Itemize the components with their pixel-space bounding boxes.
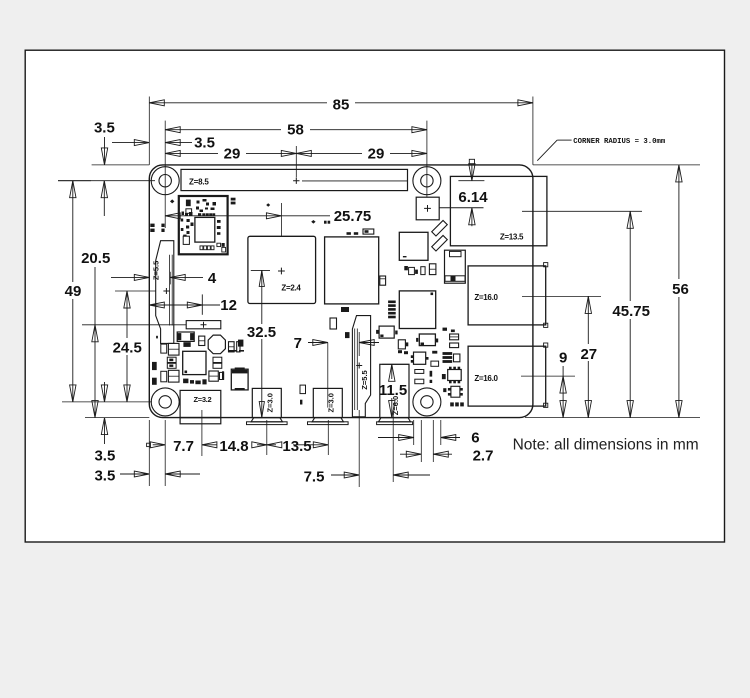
svg-text:20.5: 20.5 bbox=[81, 250, 110, 267]
ext lines hole keepout 6 bbox=[413, 420, 415, 445]
mounting hole bottom-left bbox=[151, 388, 179, 416]
dim 3.5 hole-to-bottom-edge bbox=[104, 382, 106, 402]
small part left of capacitor bbox=[222, 371, 224, 379]
dim 58 line bbox=[165, 129, 281, 131]
dim 56 bbox=[678, 165, 680, 279]
ext line HDMI1 center bottom bbox=[327, 420, 329, 455]
misc small parts top area bbox=[170, 199, 174, 203]
svg-text:9: 9 bbox=[559, 350, 567, 367]
dim 3.5 edge-to-hole bottom bbox=[120, 473, 149, 475]
svg-text:7.7: 7.7 bbox=[173, 438, 194, 455]
ext line hole row top-left bbox=[58, 180, 155, 182]
svg-text:Z=3.2: Z=3.2 bbox=[193, 395, 211, 404]
ext lines hole dia 2.7 bbox=[420, 420, 422, 462]
ext line board top left bbox=[92, 164, 150, 166]
svg-text:Note: all dimensions in mm: Note: all dimensions in mm bbox=[513, 437, 699, 454]
USB controller VL805 U3 bbox=[399, 291, 435, 329]
ext line DSI center bbox=[115, 290, 156, 292]
dim 27 bbox=[587, 296, 589, 344]
svg-text:Z=16.0: Z=16.0 bbox=[474, 374, 498, 383]
svg-text:27: 27 bbox=[580, 346, 597, 363]
dim 6.14 arrows bbox=[471, 165, 473, 181]
svg-text:56: 56 bbox=[672, 281, 689, 298]
svg-text:Z=2.4: Z=2.4 bbox=[281, 283, 301, 292]
dim 85 line bbox=[149, 102, 327, 104]
Ethernet jack J1 Z=13.5 bbox=[450, 176, 547, 245]
ext line header-row y=324.8 bbox=[82, 324, 186, 326]
svg-text:2.7: 2.7 bbox=[473, 447, 494, 464]
svg-text:24.5: 24.5 bbox=[113, 340, 142, 357]
svg-text:Z=5.5: Z=5.5 bbox=[360, 370, 369, 389]
ext line board bottom right bbox=[525, 417, 700, 419]
ext line CSI center bottom bbox=[358, 410, 360, 487]
dim 25.75 line bbox=[165, 215, 330, 217]
svg-text:58: 58 bbox=[287, 122, 304, 139]
ext line HDMI0 center bbox=[266, 420, 268, 455]
mounting hole top-right bbox=[413, 167, 441, 195]
two 45-degree components D? bbox=[432, 220, 448, 236]
ext line bottom hole row left bbox=[62, 401, 152, 403]
dim 12 bbox=[149, 304, 202, 306]
svg-text:12: 12 bbox=[220, 297, 237, 314]
CSI camera connector Z=5.5 bbox=[352, 316, 370, 417]
svg-text:Z=13.5: Z=13.5 bbox=[500, 232, 524, 241]
ext line right hole top bbox=[426, 121, 428, 198]
dim 4 bbox=[111, 276, 149, 278]
WiFi/BT module U6 (bold outline) bbox=[179, 196, 228, 254]
dim 12 tick wifi center bbox=[201, 294, 203, 314]
ext line board bottom left bbox=[85, 417, 149, 419]
svg-text:3.5: 3.5 bbox=[194, 135, 215, 152]
svg-text:49: 49 bbox=[65, 283, 82, 300]
ext line CSI center vert bbox=[358, 332, 360, 356]
ext line USB3 center bbox=[522, 295, 601, 297]
dim 32.5 tick bbox=[251, 269, 270, 271]
parts near HDMI0 bbox=[238, 340, 243, 347]
dim 7 tick HDMI1 center bbox=[327, 343, 329, 408]
PoE transformer bbox=[445, 250, 466, 283]
dim 24.5 bbox=[126, 291, 128, 338]
svg-text:13.5: 13.5 bbox=[282, 438, 311, 455]
dim 49 bbox=[72, 181, 74, 282]
ext line ethernet center right bbox=[522, 210, 642, 212]
dim 7.7 bbox=[147, 443, 151, 446]
svg-text:Z=3.0: Z=3.0 bbox=[266, 393, 275, 412]
dim 2.7 bbox=[400, 453, 421, 455]
USB2 stacked connector J2 Z=16.0 bbox=[468, 346, 546, 406]
svg-text:32.5: 32.5 bbox=[247, 324, 276, 341]
dim 6.14 rect tail bbox=[469, 159, 474, 164]
svg-text:Z=5.5: Z=5.5 bbox=[152, 261, 161, 280]
PCB board outline 85x56 rounded rect bbox=[149, 165, 533, 418]
micro HDMI1 connector bbox=[313, 388, 342, 417]
dim 13.5 bbox=[267, 444, 276, 446]
micro HDMI0 connector bbox=[252, 388, 281, 417]
svg-text:11.5: 11.5 bbox=[379, 382, 407, 399]
ext line board top right bbox=[533, 164, 700, 166]
electrolytic capacitor C? bbox=[231, 369, 248, 390]
svg-text:45.75: 45.75 bbox=[612, 303, 650, 320]
ext line SoC center vertical bbox=[280, 203, 282, 237]
PMIC U2 bbox=[183, 351, 206, 374]
middle parts near VL805/XTAL bbox=[388, 301, 396, 304]
RAM LPDDR4 U10 bbox=[325, 237, 379, 304]
mounting hole bottom-right bbox=[413, 388, 441, 416]
ext line board right edge top bbox=[532, 97, 534, 165]
ext line board left edge bottom bbox=[148, 420, 150, 486]
GPIO 40-pin header J8 bbox=[181, 169, 408, 190]
ext line USB-C center bbox=[201, 410, 203, 456]
svg-text:Z=16.0: Z=16.0 bbox=[474, 293, 498, 302]
svg-text:6: 6 bbox=[471, 429, 479, 446]
dim 29-29 line bbox=[165, 152, 218, 154]
mounting hole top-left bbox=[151, 167, 179, 195]
capacitor cluster below PHY bbox=[404, 266, 408, 270]
dim 11.5 bbox=[391, 364, 393, 379]
dim 7.5 bbox=[331, 474, 359, 476]
USB-C power connector J9 Z=3.2 bbox=[180, 390, 221, 417]
svg-text:7: 7 bbox=[294, 335, 302, 352]
svg-text:29: 29 bbox=[368, 145, 385, 162]
svg-text:3.5: 3.5 bbox=[94, 467, 115, 484]
dim 14.8 bbox=[202, 444, 217, 446]
WiFi module small parts bbox=[186, 200, 191, 207]
svg-text:7.5: 7.5 bbox=[304, 469, 325, 486]
connector pad rect with center mark bbox=[186, 321, 221, 329]
ext line USB2 center bbox=[521, 375, 575, 377]
dim 7 bbox=[308, 342, 328, 344]
Ethernet PHY U4 bbox=[399, 232, 428, 260]
dim 6 bbox=[378, 437, 414, 439]
USB/ethernet support parts cluster bbox=[443, 328, 448, 331]
dim 45.75 bbox=[629, 211, 631, 301]
ext line hole row left(49) bbox=[58, 180, 91, 182]
power circuitry parts bottom-left bbox=[156, 336, 158, 339]
dim 6.14 tick bbox=[458, 180, 484, 182]
corner radius leader bbox=[537, 140, 557, 161]
svg-text:CORNER RADIUS = 3.0mm: CORNER RADIUS = 3.0mm bbox=[573, 138, 666, 146]
svg-text:3.5: 3.5 bbox=[94, 119, 115, 136]
white drawing sheet bbox=[25, 50, 724, 542]
svg-text:4: 4 bbox=[208, 270, 217, 287]
ext line GPIO center bbox=[295, 146, 297, 177]
dim 3.5 left-edge-to-hole bbox=[112, 142, 149, 144]
WiFi shield inner bbox=[195, 217, 215, 242]
svg-text:6.14: 6.14 bbox=[458, 189, 488, 206]
svg-text:25.75: 25.75 bbox=[334, 208, 372, 225]
dim 32.5 bbox=[261, 270, 263, 324]
dim 4 tick bbox=[169, 272, 171, 285]
USB3 stacked connector J3 Z=16.0 bbox=[468, 266, 546, 325]
DSI display connector Z=5.5 bbox=[156, 241, 174, 344]
SoC BCM2711 U1 Z=2.4 bbox=[248, 236, 316, 303]
svg-text:3.5: 3.5 bbox=[94, 447, 115, 464]
ext line left hole top bbox=[164, 121, 166, 228]
ext line PoE center bbox=[439, 207, 483, 209]
svg-text:29: 29 bbox=[224, 145, 241, 162]
ext line audio center bottom bbox=[392, 410, 394, 482]
audio jack A/V Z=6.0 bbox=[380, 364, 409, 417]
ext line left hole bottom bbox=[164, 420, 166, 486]
ext line board left edge top bbox=[148, 97, 150, 165]
PoE header J14 bbox=[416, 197, 439, 220]
svg-text:85: 85 bbox=[333, 96, 350, 113]
svg-text:14.8: 14.8 bbox=[219, 438, 248, 455]
svg-text:Z=8.5: Z=8.5 bbox=[189, 177, 209, 186]
